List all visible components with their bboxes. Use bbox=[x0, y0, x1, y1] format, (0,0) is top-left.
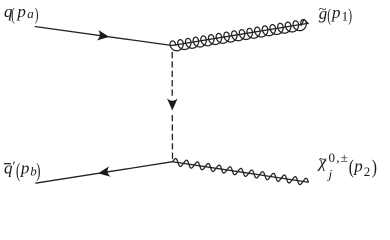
antiquark line qbar bbox=[35, 162, 172, 184]
arrow on quark line bbox=[97, 30, 110, 41]
chargino wave bbox=[173, 159, 309, 185]
svg-text:j: j bbox=[327, 167, 333, 182]
svg-text:χ: χ bbox=[317, 153, 327, 172]
svg-text:0,±: 0,± bbox=[329, 150, 350, 165]
svg-text:1: 1 bbox=[342, 8, 349, 23]
svg-text:a: a bbox=[27, 6, 34, 21]
svg-text:′: ′ bbox=[12, 160, 16, 175]
svg-text:2: 2 bbox=[364, 164, 371, 179]
svg-text:): ) bbox=[348, 5, 352, 25]
arrow on antiquark line bbox=[98, 166, 111, 177]
arrow on squark propagator bbox=[167, 98, 178, 110]
quark line q bbox=[35, 27, 172, 46]
label qbar'(p_b): overbar bbox=[4, 163, 11, 165]
svg-text:p: p bbox=[20, 158, 30, 177]
svg-text:g: g bbox=[319, 4, 328, 23]
svg-text:p: p bbox=[331, 3, 341, 22]
squark propagator dashed top bbox=[171, 52, 173, 96]
svg-text:(: ( bbox=[327, 5, 331, 25]
chargino straight line bbox=[173, 162, 309, 183]
svg-text:): ) bbox=[372, 156, 377, 178]
gluino coil bbox=[170, 19, 309, 50]
svg-text:): ) bbox=[36, 159, 40, 182]
svg-text:(: ( bbox=[16, 159, 20, 182]
svg-text:(: ( bbox=[11, 6, 15, 25]
svg-text:): ) bbox=[35, 6, 39, 25]
svg-text:p: p bbox=[16, 2, 26, 21]
squark propagator dashed bottom bbox=[171, 115, 173, 162]
gluino straight line bbox=[172, 23, 309, 45]
svg-text:p: p bbox=[353, 157, 363, 176]
